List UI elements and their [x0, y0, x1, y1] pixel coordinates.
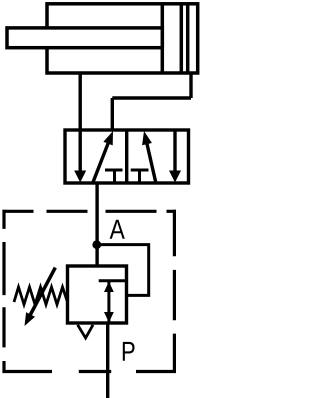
wire to valve top [111, 98, 114, 130]
wire valve to regulator [95, 183, 98, 266]
wire cylinder left port down [78, 73, 81, 130]
piston [161, 4, 165, 73]
dashed box bottom [3, 370, 177, 373]
wire horizontal [112, 96, 191, 99]
dashed box left [2, 210, 5, 373]
wire regulator output P [106, 323, 109, 398]
valve right down arrow [173, 130, 176, 177]
valve V1 body [65, 130, 189, 183]
drain vent [78, 325, 93, 338]
regulator double arrow [107, 282, 110, 322]
valve left down arrow [78, 130, 81, 177]
regulator body [68, 266, 127, 323]
valve right diagonal arrow [146, 140, 156, 184]
valve right T blocked port [131, 170, 149, 183]
cushion line 1 [180, 4, 184, 73]
wire cylinder right port down [189, 73, 192, 98]
valve left T blocked port [105, 170, 123, 183]
piston rod [7, 28, 162, 48]
dashed box top [3, 210, 177, 213]
valve divider [125, 130, 128, 183]
regulator seat bar [99, 279, 127, 282]
port P label [123, 342, 135, 361]
spring [14, 287, 68, 305]
node A junction dot [92, 240, 101, 249]
pilot line [97, 245, 149, 296]
cushion line 2 [186, 4, 190, 73]
spring adjust arrow [27, 268, 56, 322]
node A label [110, 220, 125, 239]
dashed box right [173, 210, 176, 373]
cylinder body [47, 4, 198, 73]
valve left diagonal arrow [93, 139, 111, 184]
